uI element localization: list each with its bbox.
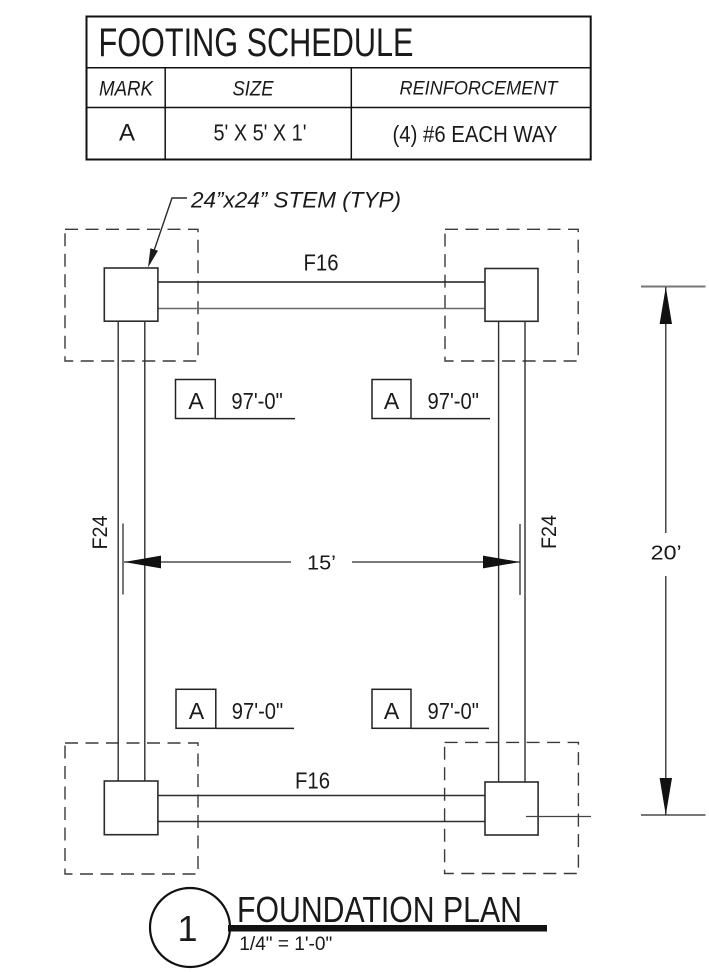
svg-text:FOUNDATION PLAN: FOUNDATION PLAN (237, 889, 522, 930)
svg-text:F16: F16 (304, 250, 339, 276)
svg-text:A: A (119, 120, 135, 147)
svg-text:A: A (384, 388, 400, 414)
column stem top-left (104, 268, 158, 321)
footing schedule table column divider 1 (164, 68, 166, 160)
dimension 20ft extension segment from stem bottom-right (526, 816, 591, 818)
footing F4 dashed outline (bottom-right) (445, 742, 579, 873)
grade beam F16 top lower edge line (158, 308, 485, 310)
dimension 20ft top arrowhead (660, 287, 672, 324)
stem note leader arrowhead (148, 248, 158, 267)
footing schedule table header row line (87, 107, 591, 109)
title detail number circle (150, 888, 230, 967)
grade beam F16 bottom lower edge line (158, 821, 485, 823)
footing F1 dashed outline (top-left) (65, 229, 198, 361)
svg-text:SIZE: SIZE (233, 78, 275, 101)
svg-text:5' X 5' X 1': 5' X 5' X 1' (214, 120, 307, 146)
grade beam F24 left west edge line (117, 321, 119, 781)
marker A box top-left (176, 380, 216, 419)
dimension 15ft line left segment (124, 561, 291, 563)
svg-text:A: A (384, 698, 400, 724)
svg-text:(4) #6 EACH WAY: (4) #6 EACH WAY (393, 121, 558, 147)
svg-text:A: A (188, 388, 204, 414)
grade beam F16 top edge line (158, 281, 485, 283)
footing F3 dashed outline (bottom-left) (65, 743, 198, 874)
svg-text:97'-0": 97'-0" (428, 388, 479, 414)
title underline bar (228, 925, 547, 932)
dimension 20ft extension tick bottom (641, 814, 706, 816)
stem note leader line (150, 198, 188, 264)
grade beam F24 left east edge line (144, 321, 146, 781)
marker A box bottom-right (372, 689, 411, 728)
footing schedule table column divider 2 (350, 68, 352, 160)
marker underline top-left (215, 418, 295, 420)
dimension 20ft line lower segment (665, 576, 667, 815)
svg-text:F24: F24 (89, 515, 112, 549)
column stem bottom-left (104, 781, 158, 835)
dimension 15ft line right segment (352, 561, 520, 563)
dimension 15ft left arrowhead (124, 556, 161, 569)
footing schedule table title row line (87, 67, 591, 69)
marker underline bottom-left (216, 727, 294, 729)
svg-text:A: A (189, 698, 205, 724)
dimension 20ft line upper segment (665, 287, 667, 533)
svg-text:FOOTING SCHEDULE: FOOTING SCHEDULE (99, 21, 414, 65)
svg-text:20’: 20’ (651, 543, 682, 565)
grade beam F24 right east edge line (524, 321, 526, 782)
marker A box top-right (372, 380, 411, 419)
svg-text:15’: 15’ (307, 553, 336, 575)
dimension 20ft bottom arrowhead (660, 778, 672, 815)
dimension 15ft right arrowhead (483, 556, 520, 569)
marker underline top-right (411, 418, 490, 420)
column stem bottom-right (485, 782, 538, 835)
marker underline bottom-right (411, 727, 489, 729)
column stem top-right (485, 269, 538, 322)
svg-text:F24: F24 (538, 515, 561, 549)
svg-text:24”x24” STEM (TYP): 24”x24” STEM (TYP) (190, 188, 401, 213)
svg-text:MARK: MARK (99, 78, 154, 101)
grade beam F16 bottom upper edge line (158, 795, 485, 797)
footing F2 dashed outline (top-right) (445, 229, 578, 361)
svg-text:1/4" = 1'-0": 1/4" = 1'-0" (239, 933, 332, 955)
dimension 15ft extension line right (519, 524, 521, 595)
marker A box bottom-left (176, 689, 216, 728)
svg-text:1: 1 (177, 908, 197, 949)
footing schedule table outer border (87, 17, 591, 160)
grade beam F24 right west edge line (498, 321, 500, 782)
svg-text:97'-0": 97'-0" (428, 698, 479, 724)
svg-text:97'-0": 97'-0" (232, 698, 283, 724)
dimension 20ft extension tick top (641, 286, 706, 288)
svg-text:REINFORCEMENT: REINFORCEMENT (400, 78, 560, 100)
svg-text:F16: F16 (295, 768, 330, 794)
svg-text:97'-0": 97'-0" (231, 388, 282, 414)
dimension 15ft extension line left (122, 524, 124, 595)
